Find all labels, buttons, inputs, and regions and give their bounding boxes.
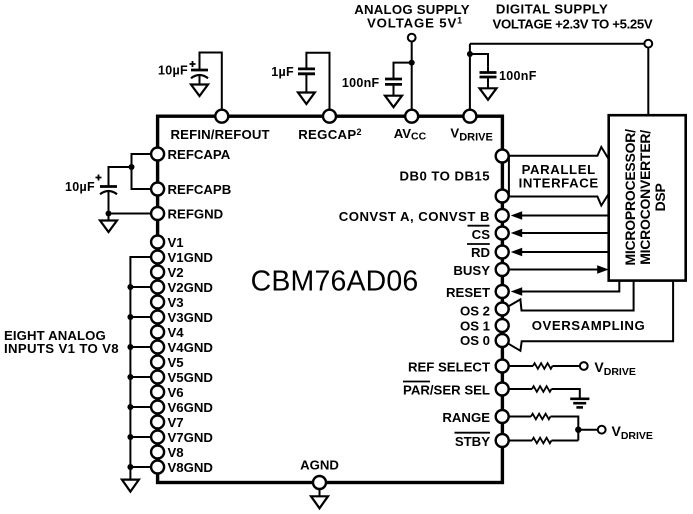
svg-text:V1GND: V1GND <box>168 250 213 265</box>
capacitor C5 10uF polarized <box>100 187 117 214</box>
svg-text:V2: V2 <box>168 265 184 280</box>
pin OS0 <box>496 334 509 347</box>
pin V2GND <box>151 281 164 294</box>
wire tap V5GND <box>130 376 151 378</box>
svg-text:STBY: STBY <box>455 434 490 449</box>
pin PAR/SER SEL <box>496 383 509 396</box>
pin V1 <box>151 236 164 249</box>
svg-text:BUSY: BUSY <box>453 263 490 278</box>
wire OS2 oversampling upper <box>509 281 634 311</box>
wire tap to VDRIVE 2 <box>578 429 598 431</box>
wire tap V3GND <box>130 316 151 318</box>
wire VDRIVE vertical <box>469 44 471 112</box>
resistor R2 PAR/SER SEL <box>509 388 532 390</box>
pin V8 <box>151 446 164 459</box>
pin REFIN/REFOUT <box>215 110 228 123</box>
wire REFCAPA-REFCAPB bracket <box>132 154 152 189</box>
microprocessor U2 text <box>622 129 668 266</box>
wire bus to ground <box>129 467 131 480</box>
pin V5GND <box>151 371 164 384</box>
pin OS2 <box>496 303 509 316</box>
pin V3GND <box>151 311 164 324</box>
analog supply terminal <box>408 34 416 42</box>
pin BUSY <box>496 263 509 276</box>
wire tap V6GND <box>130 406 151 408</box>
capacitor C2 1uF <box>298 69 315 93</box>
svg-text:MICROPROCESSOR/: MICROPROCESSOR/ <box>622 129 638 266</box>
microprocessor U2 box <box>609 115 686 280</box>
pin RESET <box>496 285 509 298</box>
svg-text:INPUTS V1 TO V8: INPUTS V1 TO V8 <box>4 341 119 356</box>
wire VDRIVE cap branch <box>470 54 488 73</box>
svg-text:V7GND: V7GND <box>168 430 213 445</box>
pin DB bus bottom <box>496 190 509 203</box>
pin REFCAPA <box>151 148 164 161</box>
svg-text:REFCAPB: REFCAPB <box>168 182 232 197</box>
svg-text:V4: V4 <box>168 325 185 340</box>
earth ground <box>570 399 589 408</box>
wire digital supply horizontal <box>470 43 645 45</box>
pin DB bus top <box>496 150 509 163</box>
svg-text:DSP: DSP <box>652 183 668 211</box>
wire CS arrow <box>522 232 609 234</box>
svg-text:INTERFACE: INTERFACE <box>519 175 599 190</box>
svg-text:AGND: AGND <box>300 458 339 473</box>
svg-text:OS 1: OS 1 <box>460 319 490 334</box>
svg-text:V3GND: V3GND <box>168 310 213 325</box>
svg-text:V2GND: V2GND <box>168 280 213 295</box>
wire V1GND analog input bus <box>130 257 151 467</box>
svg-text:OVERSAMPLING: OVERSAMPLING <box>532 318 646 333</box>
svg-text:RANGE: RANGE <box>442 410 490 425</box>
wire tap V8GND <box>130 466 151 468</box>
ground G2 <box>298 93 315 105</box>
pin V4 <box>151 326 164 339</box>
terminal VDRIVE 2 <box>598 426 606 434</box>
svg-text:REFCAPA: REFCAPA <box>168 147 231 162</box>
wire REFGND to ground <box>109 213 152 215</box>
svg-text:V5GND: V5GND <box>168 370 213 385</box>
svg-text:VOLTAGE +2.3V TO +5.25V: VOLTAGE +2.3V TO +5.25V <box>493 16 653 31</box>
svg-text:RD: RD <box>471 245 490 260</box>
pin V7GND <box>151 431 164 444</box>
svg-text:V6GND: V6GND <box>168 400 213 415</box>
wire bracket to cap C5 <box>109 167 132 187</box>
pin CONVST <box>496 209 509 222</box>
ground G6 <box>122 480 139 492</box>
capacitor C1 10uF polarized <box>191 70 208 85</box>
ground G4 <box>480 88 497 100</box>
wire tap V7GND <box>130 436 151 438</box>
pin V8GND <box>151 461 164 474</box>
pin V5 <box>151 356 164 369</box>
wire tap V4GND <box>130 346 151 348</box>
resistor R1 REF SELECT <box>509 365 533 367</box>
svg-text:V8GND: V8GND <box>168 460 213 475</box>
pin RANGE <box>496 410 509 423</box>
wire AGND to ground <box>319 487 321 496</box>
parallel interface bus arrow <box>509 147 609 206</box>
pin REFCAPB <box>151 183 164 196</box>
resistor R3 RANGE <box>509 416 531 418</box>
svg-text:DB0 TO DB15: DB0 TO DB15 <box>400 169 490 184</box>
node junction REFGND <box>106 211 112 217</box>
ground G3 <box>385 96 402 108</box>
svg-text:PAR/SER SEL: PAR/SER SEL <box>403 383 490 398</box>
pin V1GND <box>151 251 164 264</box>
wire digital supply to microprocessor <box>647 48 649 116</box>
svg-text:10µF: 10µF <box>158 64 188 78</box>
svg-text:CBM76AD06: CBM76AD06 <box>251 266 419 298</box>
svg-text:REFIN/REFOUT: REFIN/REFOUT <box>171 127 270 142</box>
wire RD arrow <box>522 251 609 253</box>
svg-text:CS: CS <box>472 227 491 242</box>
svg-text:1µF: 1µF <box>271 65 294 79</box>
node junction on AVCC wire <box>409 60 415 66</box>
C5 plus sign <box>96 175 102 181</box>
pin V3 <box>151 296 164 309</box>
pin REF SELECT <box>496 360 509 373</box>
svg-text:CONVST A, CONVST B: CONVST A, CONVST B <box>339 209 490 224</box>
svg-text:DIGITAL SUPPLY: DIGITAL SUPPLY <box>496 2 608 17</box>
ground G5 <box>100 221 117 233</box>
capacitor C3 100nF <box>385 79 402 96</box>
pin AVCC <box>405 110 418 123</box>
node dots on bus <box>127 284 133 470</box>
pin V2 <box>151 266 164 279</box>
wire AVCC cap branch <box>394 63 412 79</box>
svg-text:REGCAP2: REGCAP2 <box>298 127 362 142</box>
svg-text:V6: V6 <box>168 385 184 400</box>
wire tap V2GND <box>130 286 151 288</box>
resistor R4 STBY <box>509 440 532 442</box>
svg-text:V4GND: V4GND <box>168 340 213 355</box>
svg-text:OS 2: OS 2 <box>460 304 490 319</box>
wire BUSY arrow <box>509 269 598 271</box>
pin V6 <box>151 386 164 399</box>
svg-text:OS 0: OS 0 <box>460 333 490 348</box>
pin VDRIVE <box>463 110 476 123</box>
pin REGCAP <box>323 110 336 123</box>
wire CONVST arrow <box>522 215 609 217</box>
svg-text:REFGND: REFGND <box>168 207 224 222</box>
pin V6GND <box>151 401 164 414</box>
pin V4GND <box>151 341 164 354</box>
pin V7 <box>151 416 164 429</box>
node junction <box>575 427 581 433</box>
svg-text:V7: V7 <box>168 415 184 430</box>
node junction on bracket <box>129 164 135 170</box>
node junction on VDRIVE wire <box>467 51 473 57</box>
svg-text:V8: V8 <box>168 445 184 460</box>
IC U1 body <box>158 116 503 482</box>
wire REFIN/REFOUT cap branch <box>200 53 222 113</box>
svg-text:V3: V3 <box>168 295 184 310</box>
wire analog supply to AVCC <box>411 42 413 113</box>
ground G7 <box>311 496 328 508</box>
digital supply terminal <box>644 40 652 48</box>
svg-text:100nF: 100nF <box>342 76 380 90</box>
svg-text:10µF: 10µF <box>65 180 95 194</box>
pin STBY <box>496 434 509 447</box>
wire RESET arrow <box>522 281 620 292</box>
wire OS0 oversampling lower <box>509 281 673 351</box>
capacitor C4 100nF <box>480 73 497 89</box>
pin CS <box>496 227 509 240</box>
ground G1 <box>191 85 208 97</box>
svg-text:RESET: RESET <box>446 285 490 300</box>
svg-text:V5: V5 <box>168 355 184 370</box>
pin AGND <box>313 476 326 489</box>
C1 plus sign <box>190 61 196 67</box>
pin RD <box>496 246 509 259</box>
terminal VDRIVE 1 <box>580 362 588 370</box>
pin REFGND <box>151 207 164 220</box>
pin OS1 <box>496 319 509 332</box>
svg-text:VOLTAGE 5V1: VOLTAGE 5V1 <box>367 16 463 31</box>
svg-text:REF SELECT: REF SELECT <box>408 360 490 375</box>
svg-text:V1: V1 <box>168 235 184 250</box>
svg-text:MICROCONVERTER/: MICROCONVERTER/ <box>637 130 653 265</box>
svg-text:100nF: 100nF <box>499 69 537 83</box>
wire REGCAP cap branch <box>306 53 329 110</box>
